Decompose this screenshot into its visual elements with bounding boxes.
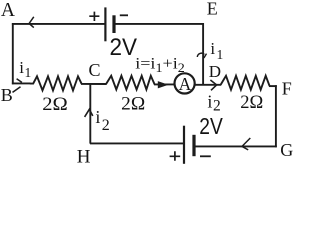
svg-text:2V: 2V: [110, 34, 138, 61]
resistor R2 2ohm: [106, 76, 155, 90]
svg-text:i=i1+i2: i=i1+i2: [135, 54, 185, 75]
battery B1 long plate (+): [104, 7, 106, 41]
svg-text:i: i: [210, 39, 215, 58]
battery B1 plus sign: [89, 12, 99, 21]
svg-text:1: 1: [217, 47, 224, 62]
wire B to R1: [12, 82, 31, 84]
svg-text:2: 2: [102, 117, 110, 134]
wire A-B left vertical: [12, 23, 14, 84]
wire battery B2 to H: [90, 142, 183, 144]
svg-text:H: H: [77, 147, 91, 165]
svg-text:2Ω: 2Ω: [240, 92, 263, 113]
ammeter A1 circle: [175, 73, 195, 93]
current arrow i1 on top wire: [29, 17, 34, 28]
battery B2 long plate (+): [183, 126, 185, 164]
svg-text:A: A: [1, 0, 15, 21]
svg-text:E: E: [207, 0, 218, 19]
svg-text:2Ω: 2Ω: [121, 93, 145, 114]
svg-text:D: D: [209, 62, 221, 81]
wire R2 to ammeter: [154, 83, 175, 85]
wire E-D right vertical: [202, 23, 204, 85]
battery B2 short plate (-): [192, 135, 195, 156]
wire A to battery top: [12, 23, 105, 25]
svg-text:A: A: [179, 74, 192, 94]
current label i=i1+i2: [135, 54, 185, 75]
svg-text:i: i: [207, 92, 212, 112]
current arrow i2 at node D: [210, 80, 216, 90]
current arrow i1 on wire E-D: [197, 53, 206, 58]
wire R1 to node C to R2: [81, 83, 107, 85]
svg-text:C: C: [89, 60, 101, 80]
filled current arrow into ammeter: [158, 81, 169, 88]
battery B1 short plate (-): [112, 15, 115, 33]
svg-text:2Ω: 2Ω: [42, 94, 68, 115]
current arrow i1 at node B: [13, 79, 22, 93]
svg-text:B: B: [1, 85, 13, 105]
current arrow i2 on branch C-H: [85, 109, 93, 117]
wire C-H branch vertical: [89, 84, 91, 144]
svg-text:i: i: [19, 58, 24, 77]
svg-text:2V: 2V: [199, 113, 223, 139]
svg-text:1: 1: [25, 65, 32, 80]
battery B2 minus sign: [200, 155, 211, 157]
battery B1 minus sign: [120, 14, 128, 16]
current arrow on bottom wire: [242, 138, 250, 150]
wire ammeter to node D to R3: [195, 84, 221, 86]
wire R3 to node F corner: [269, 85, 277, 87]
wire battery to E: [115, 23, 204, 25]
resistor R3 2ohm: [221, 76, 270, 90]
wire F-G right vertical: [275, 85, 277, 147]
svg-text:F: F: [282, 79, 292, 99]
wire G to battery B2: [196, 145, 277, 147]
svg-text:G: G: [280, 140, 293, 160]
resistor R1 2ohm: [30, 76, 82, 90]
svg-text:i: i: [95, 107, 100, 127]
battery B2 plus sign: [170, 151, 181, 161]
